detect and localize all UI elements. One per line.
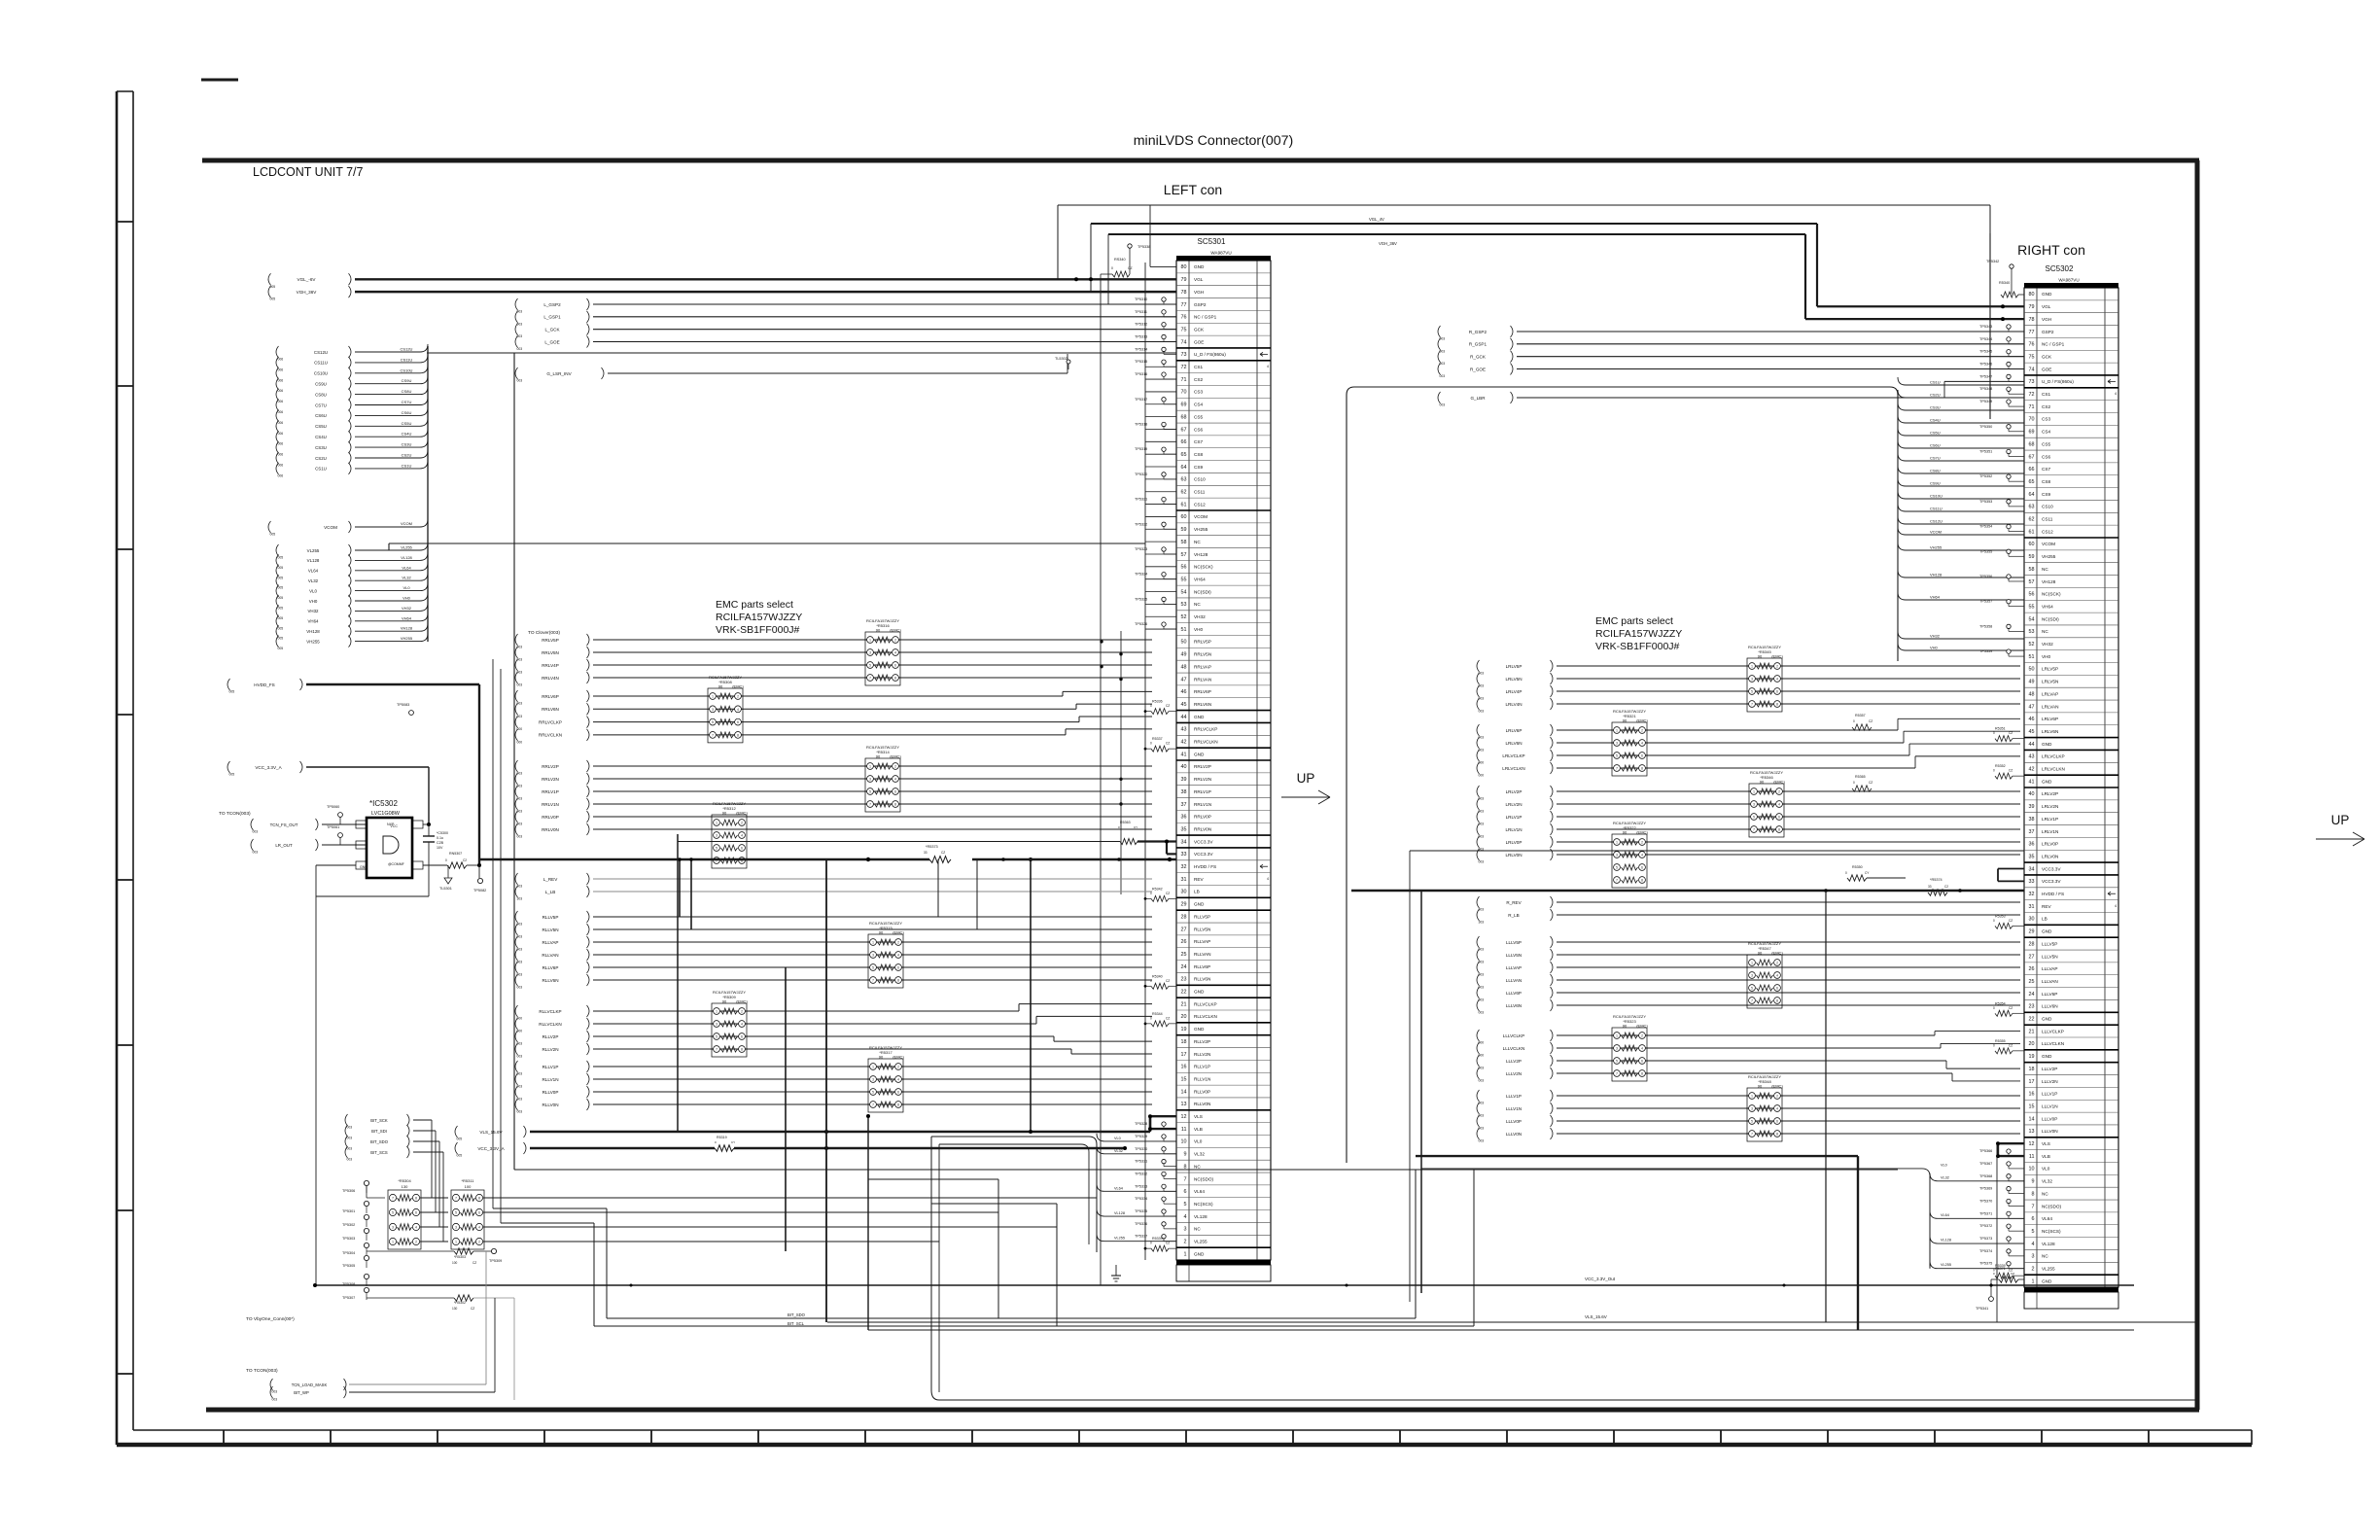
svg-text:4: 4 xyxy=(1641,742,1643,746)
svg-text:TP5322: TP5322 xyxy=(1135,522,1147,526)
svg-text:VL0: VL0 xyxy=(1941,1163,1947,1167)
svg-text:003: 003 xyxy=(347,1147,353,1151)
svg-text:GND: GND xyxy=(2042,1054,2052,1059)
svg-text:3: 3 xyxy=(712,708,714,712)
svg-text:RLLV2P: RLLV2P xyxy=(542,1034,559,1039)
svg-text:66: 66 xyxy=(1181,439,1187,445)
svg-text:TP5368: TP5368 xyxy=(1979,1174,1992,1178)
svg-text:90: 90 xyxy=(722,998,727,1003)
svg-text:3: 3 xyxy=(1751,974,1753,978)
svg-text:TP5310: TP5310 xyxy=(1135,297,1147,301)
svg-text:L_LB: L_LB xyxy=(545,890,556,894)
svg-text:CZ: CZ xyxy=(1166,742,1170,746)
svg-text:48: 48 xyxy=(1181,664,1187,670)
svg-text:37: 37 xyxy=(2029,829,2035,835)
svg-text:005: 005 xyxy=(229,773,235,777)
svg-text:1: 1 xyxy=(869,639,871,643)
svg-text:0: 0 xyxy=(1853,719,1855,723)
svg-text:52: 52 xyxy=(1181,614,1187,620)
svg-text:4: 4 xyxy=(1641,854,1643,857)
svg-text:2: 2 xyxy=(1776,665,1778,669)
svg-text:61: 61 xyxy=(1181,502,1187,507)
svg-text:006: 006 xyxy=(278,453,284,457)
svg-text:1: 1 xyxy=(392,1241,394,1244)
svg-text:GND: GND xyxy=(2042,1017,2052,1022)
svg-text:CS2: CS2 xyxy=(2042,404,2051,409)
svg-text:RRLV6P: RRLV6P xyxy=(542,694,559,699)
svg-text:TP5311: TP5311 xyxy=(1135,310,1147,314)
svg-text:1: 1 xyxy=(1616,729,1618,733)
svg-text:35: 35 xyxy=(2029,854,2035,859)
svg-text:8: 8 xyxy=(1778,828,1780,832)
svg-text:2: 2 xyxy=(2032,1267,2035,1273)
svg-text:CS10: CS10 xyxy=(2042,505,2053,509)
svg-text:4: 4 xyxy=(1641,1047,1643,1051)
svg-text:RN5307: RN5307 xyxy=(449,852,462,856)
svg-text:CS5U: CS5U xyxy=(315,424,327,429)
svg-text:8: 8 xyxy=(1641,1072,1643,1076)
svg-text:CZ: CZ xyxy=(2011,1272,2014,1276)
svg-text:TP5350: TP5350 xyxy=(1979,425,1992,429)
svg-text:CZ: CZ xyxy=(1166,1016,1170,1020)
svg-text:CS11U: CS11U xyxy=(401,357,413,362)
svg-text:33: 33 xyxy=(2029,879,2035,885)
svg-text:41: 41 xyxy=(1181,752,1187,757)
svg-text:46: 46 xyxy=(2029,717,2035,722)
svg-text:60: 60 xyxy=(1181,514,1187,520)
svg-text:TP5082: TP5082 xyxy=(473,889,486,892)
svg-text:32: 32 xyxy=(1181,864,1187,870)
svg-text:VL32: VL32 xyxy=(1114,1149,1123,1153)
svg-text:16: 16 xyxy=(1181,1065,1187,1070)
svg-text:VL128: VL128 xyxy=(1194,1214,1207,1219)
svg-text:7: 7 xyxy=(1616,1072,1618,1076)
svg-text:3: 3 xyxy=(392,1226,394,1230)
svg-text:26: 26 xyxy=(1181,939,1187,945)
svg-text:TP5301: TP5301 xyxy=(342,1209,355,1213)
svg-text:21: 21 xyxy=(2029,1029,2035,1034)
svg-text:RLLV6N: RLLV6N xyxy=(1194,977,1210,982)
svg-text:RRLV5P: RRLV5P xyxy=(542,638,559,643)
svg-text:RLLVCLKP: RLLVCLKP xyxy=(1194,1001,1217,1006)
svg-text:NC: NC xyxy=(1194,1164,1201,1169)
svg-text:6: 6 xyxy=(415,1211,417,1215)
svg-text:GND: GND xyxy=(2042,292,2052,297)
svg-text:VLB: VLB xyxy=(1194,1127,1203,1132)
svg-text:VL32: VL32 xyxy=(1941,1175,1949,1179)
svg-text:TP5304: TP5304 xyxy=(342,1251,355,1255)
svg-text:LLLVCLKP: LLLVCLKP xyxy=(1503,1033,1524,1038)
svg-text:7: 7 xyxy=(1616,879,1618,883)
svg-text:CS7U: CS7U xyxy=(402,400,412,404)
svg-text:RLLVAN: RLLVAN xyxy=(542,953,558,958)
svg-text:GOE: GOE xyxy=(1194,339,1204,344)
svg-text:R5365: R5365 xyxy=(1855,775,1866,779)
svg-text:50: 50 xyxy=(1181,640,1187,646)
svg-text:LRLV6P: LRLV6P xyxy=(1506,728,1522,733)
svg-text:28: 28 xyxy=(2029,941,2035,947)
svg-text:LLLVCLKP: LLLVCLKP xyxy=(2042,1029,2064,1033)
svg-text:50: 50 xyxy=(2029,667,2035,673)
svg-text:29: 29 xyxy=(2029,929,2035,935)
svg-text:5: 5 xyxy=(1616,754,1618,758)
svg-text:000: 000 xyxy=(1479,774,1485,778)
svg-text:15: 15 xyxy=(2029,1103,2035,1109)
svg-text:SC5302: SC5302 xyxy=(2046,264,2074,273)
svg-text:23: 23 xyxy=(2029,1004,2035,1010)
svg-text:20: 20 xyxy=(1181,1014,1187,1020)
svg-text:NC: NC xyxy=(2042,1191,2048,1196)
svg-text:CS4U: CS4U xyxy=(402,432,412,437)
svg-text:20: 20 xyxy=(2029,1041,2035,1047)
svg-text:U_D / FS(860u): U_D / FS(860u) xyxy=(1194,352,1226,357)
svg-text:4: 4 xyxy=(2115,904,2117,908)
svg-text:REV: REV xyxy=(2042,904,2052,909)
svg-text:CS12U: CS12U xyxy=(1930,519,1942,524)
svg-text:TP5332: TP5332 xyxy=(1135,1172,1147,1175)
svg-text:CS8U: CS8U xyxy=(315,392,327,397)
svg-text:3: 3 xyxy=(1616,742,1618,746)
svg-text:NC: NC xyxy=(1194,540,1201,544)
svg-text:003: 003 xyxy=(347,1137,353,1140)
svg-text:3: 3 xyxy=(1751,678,1753,682)
svg-text:R_GSP1: R_GSP1 xyxy=(1469,342,1487,347)
svg-text:2: 2 xyxy=(1184,1240,1187,1245)
svg-text:*IC5302: *IC5302 xyxy=(369,799,398,808)
svg-text:6: 6 xyxy=(1641,1060,1643,1064)
svg-text:6: 6 xyxy=(1184,1189,1187,1195)
svg-text:7: 7 xyxy=(392,1197,394,1201)
svg-text:1: 1 xyxy=(1751,1095,1753,1099)
svg-text:22: 22 xyxy=(2029,1017,2035,1023)
svg-text:25: 25 xyxy=(2029,979,2035,985)
svg-text:TP5351: TP5351 xyxy=(1979,449,1992,453)
svg-text:64: 64 xyxy=(1181,465,1187,471)
svg-text:CS1: CS1 xyxy=(2042,392,2051,397)
svg-text:CZ: CZ xyxy=(472,1261,476,1265)
svg-text:RRLV0P: RRLV0P xyxy=(1194,815,1211,820)
svg-text:LRLV1P: LRLV1P xyxy=(1506,815,1522,820)
svg-text:49: 49 xyxy=(2029,680,2035,685)
svg-text:5: 5 xyxy=(712,720,714,724)
svg-text:GND: GND xyxy=(2042,929,2052,934)
svg-text:003: 003 xyxy=(517,683,523,687)
svg-text:RLLV1N: RLLV1N xyxy=(1194,1076,1210,1081)
svg-text:0: 0 xyxy=(1993,1006,1995,1010)
svg-text:005: 005 xyxy=(278,556,284,560)
svg-text:24: 24 xyxy=(2029,992,2035,997)
svg-text:5: 5 xyxy=(1753,816,1755,820)
svg-text:4: 4 xyxy=(1776,678,1778,682)
svg-text:NC(SCS): NC(SCS) xyxy=(2042,1229,2061,1234)
svg-text:8: 8 xyxy=(737,733,739,737)
svg-text:38: 38 xyxy=(2029,817,2035,822)
svg-text:LRLV2P: LRLV2P xyxy=(2042,791,2058,796)
svg-text:RLLV6N: RLLV6N xyxy=(542,978,558,983)
svg-text:R5353: R5353 xyxy=(1995,914,2006,918)
svg-text:TP5325: TP5325 xyxy=(1135,597,1147,601)
svg-text:GSP2: GSP2 xyxy=(2042,330,2054,334)
svg-text:LRLVAN: LRLVAN xyxy=(2042,704,2059,709)
svg-text:90: 90 xyxy=(1623,717,1627,722)
svg-text:VL0: VL0 xyxy=(309,588,317,593)
svg-text:LRLV5N: LRLV5N xyxy=(2042,680,2058,684)
svg-text:TP5323: TP5323 xyxy=(1135,547,1147,551)
svg-text:6: 6 xyxy=(478,1211,480,1215)
svg-text:7: 7 xyxy=(1184,1176,1187,1182)
svg-text:006: 006 xyxy=(278,367,284,371)
svg-text:WA987VU: WA987VU xyxy=(1210,251,1231,256)
svg-text:CY: CY xyxy=(1134,825,1137,829)
svg-text:(EMC): (EMC) xyxy=(736,998,748,1003)
svg-text:VL255: VL255 xyxy=(307,548,320,553)
svg-text:L_GSP2: L_GSP2 xyxy=(543,302,561,307)
svg-text:VH0: VH0 xyxy=(1194,627,1204,632)
svg-text:*R5302: *R5302 xyxy=(454,1301,466,1305)
svg-text:CS12U: CS12U xyxy=(401,347,413,352)
svg-text:R5340: R5340 xyxy=(1152,974,1163,978)
svg-text:R5319: R5319 xyxy=(717,1136,727,1139)
svg-text:75: 75 xyxy=(1181,327,1187,332)
svg-text:LLLV0N: LLLV0N xyxy=(2042,1129,2058,1134)
svg-text:VH32: VH32 xyxy=(2042,642,2053,647)
svg-text:R5371: R5371 xyxy=(1995,1267,2006,1271)
svg-text:006: 006 xyxy=(278,400,284,403)
svg-text:14: 14 xyxy=(2029,1116,2035,1122)
svg-text:(EMC): (EMC) xyxy=(892,1054,904,1059)
svg-text:VL32: VL32 xyxy=(2042,1179,2052,1184)
svg-text:5: 5 xyxy=(392,1211,394,1215)
svg-text:6: 6 xyxy=(897,1091,899,1095)
svg-text:CZ: CZ xyxy=(2009,1006,2012,1010)
svg-text:R5363: R5363 xyxy=(1120,821,1131,824)
svg-text:CZ: CZ xyxy=(941,851,945,855)
svg-text:4: 4 xyxy=(478,1226,480,1230)
svg-text:TP5342: TP5342 xyxy=(1986,260,1999,263)
svg-text:CZ: CZ xyxy=(1869,719,1872,723)
svg-text:43: 43 xyxy=(1181,727,1187,733)
svg-text:CS8U: CS8U xyxy=(1930,469,1941,473)
svg-text:CZ: CZ xyxy=(2009,769,2012,773)
svg-text:90: 90 xyxy=(876,753,881,758)
svg-text:NC: NC xyxy=(2042,1254,2048,1259)
svg-text:VL128: VL128 xyxy=(2042,1242,2055,1246)
svg-text:VL128: VL128 xyxy=(307,558,320,563)
svg-text:8: 8 xyxy=(1641,767,1643,771)
svg-text:24: 24 xyxy=(1181,964,1187,970)
svg-text:2: 2 xyxy=(1776,1095,1778,1099)
svg-text:CZ: CZ xyxy=(1869,781,1872,785)
svg-text:NC(SDO): NC(SDO) xyxy=(2042,1204,2061,1208)
svg-text:46: 46 xyxy=(1181,689,1187,695)
svg-text:65: 65 xyxy=(1181,452,1187,458)
svg-text:TP5336: TP5336 xyxy=(1135,1222,1147,1226)
svg-text:006: 006 xyxy=(278,432,284,436)
svg-text:58: 58 xyxy=(2029,567,2035,573)
svg-text:TO TCON(003): TO TCON(003) xyxy=(246,1368,278,1374)
svg-text:53: 53 xyxy=(1181,602,1187,608)
svg-text:RRLVCLKN: RRLVCLKN xyxy=(1194,740,1218,745)
svg-text:VCOM: VCOM xyxy=(1930,530,1942,535)
svg-text:C2: C2 xyxy=(1944,885,1948,889)
svg-text:0: 0 xyxy=(1150,742,1152,746)
svg-text:LLLV0P: LLLV0P xyxy=(1506,1119,1522,1124)
svg-text:TP5372: TP5372 xyxy=(1979,1224,1992,1228)
svg-text:100: 100 xyxy=(452,1261,458,1265)
svg-text:VL0: VL0 xyxy=(402,585,410,590)
svg-text:4: 4 xyxy=(741,1023,743,1027)
svg-text:90: 90 xyxy=(1758,653,1763,658)
svg-text:TP5328: TP5328 xyxy=(1135,1122,1147,1126)
svg-text:TP5373: TP5373 xyxy=(1979,1237,1992,1241)
svg-text:CS1: CS1 xyxy=(1194,365,1204,369)
svg-text:003: 003 xyxy=(517,347,523,351)
svg-text:006: 006 xyxy=(278,378,284,382)
svg-text:7: 7 xyxy=(712,733,714,737)
svg-text:TP5330: TP5330 xyxy=(1135,1147,1147,1151)
svg-text:51: 51 xyxy=(2029,654,2035,660)
svg-text:LCDCONT UNIT 7/7: LCDCONT UNIT 7/7 xyxy=(253,165,364,179)
svg-text:003: 003 xyxy=(1479,1079,1485,1083)
svg-text:68: 68 xyxy=(2029,441,2035,447)
svg-text:90: 90 xyxy=(1623,1023,1627,1028)
svg-text:VL64: VL64 xyxy=(308,569,319,574)
svg-text:1: 1 xyxy=(872,941,874,945)
svg-text:7: 7 xyxy=(1751,999,1753,1003)
svg-text:RLLVCLKN: RLLVCLKN xyxy=(539,1022,561,1027)
svg-text:TP5302: TP5302 xyxy=(342,1223,355,1227)
svg-text:EMC parts select: EMC parts select xyxy=(716,599,793,611)
svg-text:CS2U: CS2U xyxy=(402,453,412,458)
svg-text:CS8U: CS8U xyxy=(402,389,412,394)
svg-text:TL5301: TL5301 xyxy=(439,887,452,891)
svg-text:4: 4 xyxy=(1184,1214,1187,1220)
svg-text:CZ: CZ xyxy=(471,1307,474,1311)
svg-text:VH0: VH0 xyxy=(402,596,411,601)
svg-text:VH32: VH32 xyxy=(402,606,412,611)
svg-text:TP5366: TP5366 xyxy=(1979,1149,1992,1153)
svg-text:BIT_WP: BIT_WP xyxy=(294,1390,309,1395)
svg-text:73: 73 xyxy=(2029,379,2035,385)
svg-text:LRLV0N: LRLV0N xyxy=(2042,854,2058,858)
svg-text:CS8: CS8 xyxy=(1194,452,1204,457)
svg-text:VL32: VL32 xyxy=(308,578,319,583)
svg-text:LRLVCLKN: LRLVCLKN xyxy=(1502,766,1524,771)
svg-text:VH0: VH0 xyxy=(309,599,318,604)
svg-text:6: 6 xyxy=(1776,690,1778,694)
svg-text:NC(SDI): NC(SDI) xyxy=(1194,589,1211,594)
svg-text:(EMC): (EMC) xyxy=(1773,779,1785,784)
svg-text:68: 68 xyxy=(1181,414,1187,420)
svg-text:TP5374: TP5374 xyxy=(1979,1249,1992,1253)
svg-text:TP5337: TP5337 xyxy=(1135,1235,1147,1239)
svg-text:2: 2 xyxy=(741,1010,743,1014)
svg-text:TP5369: TP5369 xyxy=(1979,1187,1992,1191)
svg-text:LRLV6P: LRLV6P xyxy=(2042,717,2058,721)
svg-text:VH128: VH128 xyxy=(401,626,413,631)
svg-text:76: 76 xyxy=(1181,315,1187,321)
svg-text:VH32: VH32 xyxy=(308,609,320,613)
svg-text:CS1U: CS1U xyxy=(1930,380,1941,385)
svg-text:NC(SCK): NC(SCK) xyxy=(2042,592,2061,597)
svg-text:RRLV0N: RRLV0N xyxy=(542,827,559,832)
svg-text:005: 005 xyxy=(278,616,284,620)
svg-text:NC: NC xyxy=(2042,567,2048,572)
svg-text:TP5358: TP5358 xyxy=(1979,624,1992,628)
svg-text:NC / GSP1: NC / GSP1 xyxy=(1194,315,1217,320)
svg-text:TP5320: TP5320 xyxy=(1135,472,1147,476)
svg-text:CS6U: CS6U xyxy=(402,410,412,415)
svg-text:75: 75 xyxy=(2029,354,2035,360)
svg-text:RRLV5N: RRLV5N xyxy=(542,650,559,655)
svg-text:005: 005 xyxy=(270,533,276,537)
svg-text:28: 28 xyxy=(1181,914,1187,920)
svg-text:90: 90 xyxy=(879,929,884,934)
svg-text:LRLVCLKN: LRLVCLKN xyxy=(2042,767,2065,772)
svg-text:TP5341: TP5341 xyxy=(1976,1307,1988,1311)
svg-text:13: 13 xyxy=(1181,1102,1187,1107)
svg-text:003: 003 xyxy=(1440,374,1446,378)
svg-text:90: 90 xyxy=(1623,829,1627,834)
svg-text:5: 5 xyxy=(1751,987,1753,991)
svg-text:VGH: VGH xyxy=(2042,317,2051,322)
svg-text:12: 12 xyxy=(2029,1141,2035,1147)
svg-text:005: 005 xyxy=(278,566,284,570)
svg-text:R_REV: R_REV xyxy=(1506,900,1522,905)
svg-text:3: 3 xyxy=(869,778,871,782)
svg-text:LLLV6P: LLLV6P xyxy=(1506,991,1522,996)
svg-text:CS5: CS5 xyxy=(1194,414,1204,419)
svg-text:RLLV0N: RLLV0N xyxy=(1194,1102,1210,1106)
svg-text:RLLVAP: RLLVAP xyxy=(1194,939,1210,944)
svg-text:VRK-SB1FF000J#: VRK-SB1FF000J# xyxy=(1595,641,1680,652)
svg-text:3: 3 xyxy=(1751,1107,1753,1111)
svg-text:LRLVAP: LRLVAP xyxy=(2042,691,2058,696)
svg-text:5: 5 xyxy=(2032,1229,2035,1235)
svg-text:100: 100 xyxy=(465,1184,472,1189)
svg-text:2: 2 xyxy=(894,639,896,643)
svg-text:3: 3 xyxy=(2032,1254,2035,1260)
svg-text:5: 5 xyxy=(869,664,871,668)
svg-text:54: 54 xyxy=(2029,616,2035,622)
svg-text:30: 30 xyxy=(1181,890,1187,895)
svg-text:VH64: VH64 xyxy=(1194,577,1206,581)
svg-text:TCN_FS_OUT: TCN_FS_OUT xyxy=(270,822,298,827)
svg-text:14: 14 xyxy=(1181,1089,1187,1095)
svg-text:R5352: R5352 xyxy=(1995,764,2006,768)
svg-text:7: 7 xyxy=(1751,1133,1753,1137)
svg-text:LRLV2P: LRLV2P xyxy=(1506,789,1522,794)
svg-text:2: 2 xyxy=(894,765,896,769)
svg-text:8: 8 xyxy=(894,677,896,681)
svg-text:1: 1 xyxy=(455,1241,457,1244)
svg-text:TP5352: TP5352 xyxy=(1979,474,1992,478)
svg-text:VRK-SB1FF000J#: VRK-SB1FF000J# xyxy=(716,624,800,636)
svg-text:3: 3 xyxy=(455,1226,457,1230)
svg-text:006: 006 xyxy=(278,442,284,446)
svg-text:RRLV6N: RRLV6N xyxy=(542,707,559,712)
svg-text:37: 37 xyxy=(1181,802,1187,808)
svg-text:NC(SCS): NC(SCS) xyxy=(1194,1202,1213,1207)
svg-text:0: 0 xyxy=(1993,1043,1995,1047)
svg-text:CZ: CZ xyxy=(2009,1043,2012,1047)
svg-text:CS10U: CS10U xyxy=(314,371,328,376)
svg-text:7: 7 xyxy=(1616,767,1618,771)
svg-text:CS7: CS7 xyxy=(2042,467,2051,472)
svg-text:4: 4 xyxy=(897,954,899,958)
svg-text:56: 56 xyxy=(1181,565,1187,571)
svg-text:CZ: CZ xyxy=(1166,1242,1170,1245)
